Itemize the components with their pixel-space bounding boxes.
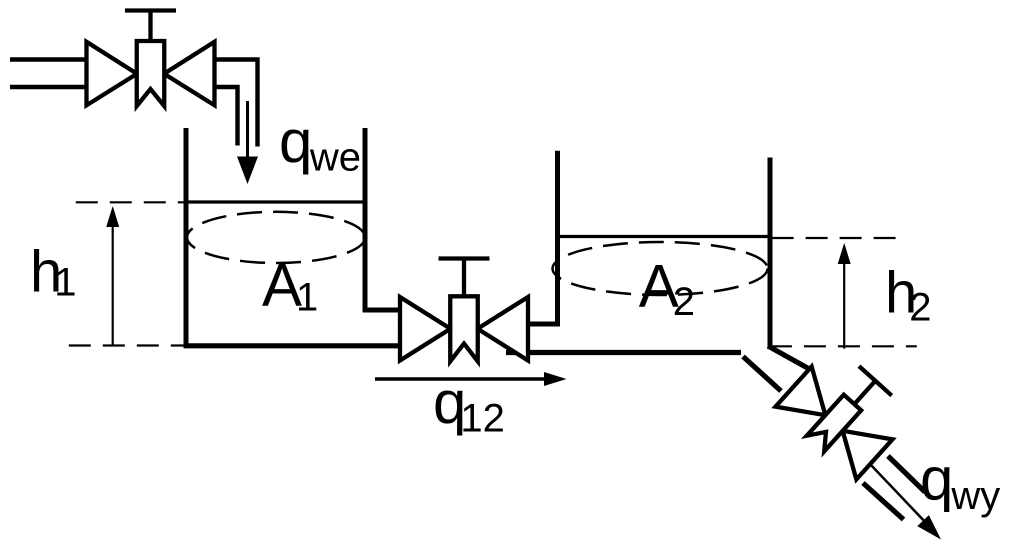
outlet pipe lower diagonal from tank 2 bottom [743, 357, 781, 392]
valve V2 (between tanks) [400, 259, 528, 362]
svg-text:h1: h1 [30, 240, 77, 305]
svg-text:qwe: qwe [279, 108, 361, 180]
pipe from valve V1 to tank 1: inner segment [215, 87, 238, 146]
tank 2 bottom [506, 350, 741, 355]
inlet pipe upper line [10, 57, 88, 61]
tank 2 right wall [768, 158, 773, 350]
tank 1 water surface ellipse (dashed) [187, 212, 365, 263]
inlet pipe lower line [10, 85, 88, 89]
h2 bottom dashed line [770, 345, 917, 347]
pipe from valve V1 to tank 1: outer segment [215, 60, 258, 147]
h1 dimension arrow [106, 206, 119, 346]
svg-text:A2: A2 [639, 253, 695, 325]
pipe jog from tank 1 right wall to valve V2 [363, 308, 400, 313]
outflow arrow q_wy [870, 464, 941, 540]
svg-text:h2: h2 [885, 261, 932, 330]
tank 2 water surface line [558, 235, 771, 238]
h1 top dashed line [76, 201, 186, 203]
tank 2 left wall [555, 151, 560, 327]
outlet pipe upper diagonal from tank 2 wall [768, 346, 812, 371]
h1 bottom dashed line [69, 344, 184, 346]
valve V3 (outflow valve, rotated) [775, 343, 914, 480]
outflow pipe lower line [863, 483, 904, 520]
flow arrow q12 [375, 372, 567, 386]
tank 1 water surface line [186, 200, 365, 203]
valve V1 (inflow valve) [87, 11, 215, 107]
tank 1 bottom [184, 343, 399, 348]
h2 dimension arrow [838, 243, 851, 349]
svg-text:qwy: qwy [920, 446, 1000, 519]
outflow pipe upper line [888, 456, 925, 492]
h2 top dashed line [772, 237, 906, 239]
tank 2 water surface ellipse (dashed) [553, 242, 768, 295]
inflow arrow into tank 1 [237, 101, 258, 184]
svg-text:A1: A1 [262, 252, 318, 320]
tank 1 left wall [184, 128, 189, 348]
tank 1 right wall [363, 128, 368, 312]
pipe jog from valve V2 to tank 2 left wall [528, 322, 560, 327]
